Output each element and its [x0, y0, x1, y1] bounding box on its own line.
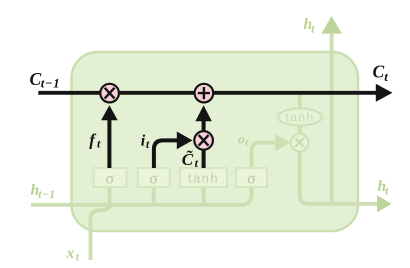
wire stem to sigma2	[152, 186, 156, 205]
gate box sigma2	[138, 168, 170, 188]
wire output path down and right to h_t	[300, 151, 377, 204]
label i_t	[141, 133, 150, 152]
label h_{t-1}	[31, 182, 56, 201]
arrow f_t up into multiply	[101, 105, 118, 168]
svg-text:t: t	[385, 185, 389, 197]
svg-text:t: t	[311, 23, 315, 35]
label x_t	[66, 245, 80, 264]
wire o_t path from sigma3 to output multiply	[252, 134, 291, 168]
label f_t	[89, 131, 101, 151]
label h_t right	[378, 178, 390, 197]
small pointwise multiply circle (input)	[194, 131, 213, 150]
svg-text:t: t	[384, 69, 388, 84]
label C_{t-1}	[30, 69, 61, 91]
svg-text:o: o	[238, 133, 245, 148]
tanh oval	[278, 109, 322, 126]
svg-text:C: C	[373, 62, 385, 82]
svg-text:σ: σ	[105, 171, 114, 188]
gate box sigma3	[236, 168, 267, 188]
gate box tanh	[180, 168, 227, 187]
svg-text:t−1: t−1	[41, 76, 60, 91]
label C_t	[373, 62, 389, 84]
arrowhead h_t up	[321, 16, 341, 34]
wire tanh oval to output multiply	[298, 125, 302, 135]
LSTM cell body	[72, 52, 359, 231]
svg-text:C̃: C̃	[182, 150, 194, 169]
svg-text:σ: σ	[247, 171, 256, 188]
svg-text:x: x	[66, 245, 75, 262]
arrowhead h_t right	[377, 195, 392, 212]
wire stem to tanh gate	[202, 186, 206, 205]
svg-text:t: t	[76, 252, 80, 264]
pointwise plus circle on cell state	[195, 84, 214, 103]
svg-text:tanh: tanh	[285, 111, 314, 125]
cell state line C_{t-1} to C_t	[38, 84, 392, 102]
gate box sigma1	[94, 168, 127, 188]
wire h_{t-1} input bus	[31, 187, 252, 205]
arrow i_t curved into small multiply	[154, 132, 193, 169]
svg-text:C: C	[30, 69, 42, 89]
arrow small multiply up into plus	[195, 105, 211, 132]
wire stem to sigma1	[108, 186, 112, 205]
wire h_t branch up	[330, 33, 334, 204]
label o_t	[238, 133, 249, 150]
svg-text:t−1: t−1	[38, 189, 55, 201]
wire x_t input bus	[91, 205, 112, 260]
label h_t top	[304, 16, 316, 35]
wire tanh gate up to small multiply	[202, 149, 206, 168]
output pointwise multiply circle (faded)	[291, 134, 309, 152]
pointwise multiply circle on cell state	[100, 84, 119, 103]
svg-text:σ: σ	[149, 171, 158, 188]
svg-text:tanh: tanh	[188, 171, 219, 186]
label C~_t	[182, 150, 199, 170]
wire cell-state branch down into tanh oval	[298, 94, 302, 110]
